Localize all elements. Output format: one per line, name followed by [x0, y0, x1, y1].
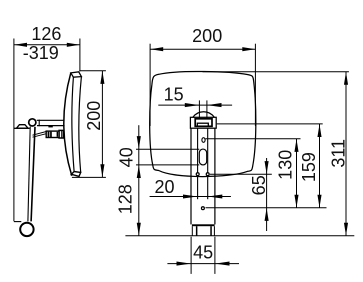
dimension 200 top: line: [150, 48, 255, 50]
knob body: [46, 131, 59, 137]
wall plate cap line: [14, 127, 30, 129]
mirror front outline (squircle): [150, 71, 256, 176]
upper small hole: [202, 138, 205, 143]
clamp inner small rect: [197, 123, 208, 126]
mirror strip bottom cap: [71, 172, 80, 177]
rod line left: [197, 128, 199, 199]
arrow up 311: [344, 72, 348, 85]
arrow down 200L: [100, 164, 104, 177]
dimension 200 left view: line: [101, 71, 103, 178]
base right side line: [213, 226, 215, 236]
arrow 20 left: [183, 194, 197, 198]
svg-text:40: 40: [117, 147, 137, 167]
dimension 159 line: [319, 124, 321, 208]
159 top extension: [217, 123, 323, 125]
lower hole: [201, 207, 204, 210]
dimension 20 line: [150, 196, 231, 198]
arm joint tick: [38, 120, 40, 127]
svg-text:65: 65: [249, 175, 269, 195]
svg-text:159: 159: [299, 152, 319, 182]
upper arm bottom line: [37, 125, 65, 127]
arrow right 200T: [242, 47, 255, 51]
svg-text:126: 126: [31, 24, 61, 44]
wall extension line (126 left): [13, 39, 15, 222]
arrow up 159: [317, 124, 321, 137]
arrow down 130: [294, 195, 298, 208]
arrow down onto 149.2: [137, 136, 141, 149]
bottom wall line: [14, 221, 21, 223]
dimension 130 line: [296, 139, 298, 208]
screw circle left: [196, 173, 199, 176]
rod line right: [207, 128, 209, 199]
dimension 200 left view: bottom extension: [72, 176, 106, 178]
arrow right of 126: [67, 43, 80, 47]
mirror strip top cap: [71, 72, 82, 77]
mirror strip front inner edge: [72, 77, 74, 171]
rail outer line right: [214, 128, 216, 224]
base left side line: [191, 226, 193, 236]
65 top extension from screws: [210, 173, 272, 175]
svg-text:20: 20: [154, 177, 174, 197]
knob band 2: [50, 132, 52, 137]
arrow 65 bottom (outside pointing up): [265, 208, 269, 221]
swing arm right line: [31, 127, 35, 222]
40 top extension line: [136, 148, 199, 150]
dimension 65 line: [266, 158, 268, 231]
arrow 45 right: [215, 262, 229, 266]
svg-text:200: 200: [84, 101, 104, 131]
dimension 45 line: [167, 263, 239, 265]
arrow 45 left: [177, 262, 191, 266]
rail outer line left: [190, 128, 192, 224]
svg-text:128: 128: [116, 184, 136, 214]
bottom roller circle: [20, 223, 33, 236]
dimension 200 top: left extension: [149, 44, 151, 126]
knob band 1: [48, 132, 50, 137]
dimension 126/-319 line: [14, 44, 80, 46]
svg-text:200: 200: [192, 26, 222, 46]
15 extension tick right: [206, 100, 208, 118]
45 extension right: [214, 237, 216, 274]
dimension 200 left view: top extension: [79, 70, 106, 72]
mirror strip front outer edge: [64, 73, 72, 174]
knob band 3: [57, 132, 58, 137]
arrow down 159: [317, 195, 321, 208]
svg-text:15: 15: [164, 84, 184, 104]
arrow left of 126: [14, 43, 27, 47]
svg-text:45: 45: [193, 243, 213, 263]
311 top extension: [203, 71, 349, 73]
arrow down 128 bottom: [137, 223, 141, 236]
arrow up 200L: [100, 71, 104, 84]
small dark tab under arm: [48, 126, 52, 128]
arrow 15 left (outside pointing right): [185, 103, 199, 107]
swing arm left line: [28, 127, 30, 222]
dimension 15 line: [158, 104, 232, 106]
svg-text:130: 130: [276, 150, 296, 180]
40 bottom extension line: [136, 164, 199, 166]
knob end cap inner line: [61, 130, 63, 138]
bottom long extension line: [125, 235, 354, 237]
upper arm top line: [37, 119, 65, 121]
dimension 200 top: right extension: [254, 44, 256, 126]
slot (elongated hole): [199, 149, 206, 165]
screw circle right: [206, 173, 209, 176]
base thick bar: [192, 224, 215, 226]
lever diagonal upper: [33, 132, 47, 136]
leader line from upper hole (130 top extension): [206, 138, 301, 140]
ball joint: [29, 119, 36, 126]
base right leg: [210, 226, 212, 235]
clamp inner window: [195, 119, 212, 127]
bottom cap corner dot: [71, 174, 73, 176]
dimension 311 line: [345, 72, 347, 236]
base left leg: [196, 226, 198, 235]
svg-text:-319: -319: [23, 43, 59, 63]
clamp box: [190, 117, 216, 128]
arrow 65 top (outside pointing down): [265, 161, 269, 174]
arrow 15 right (outside pointing left): [207, 103, 221, 107]
clamp dome arc: [193, 112, 215, 118]
arrow left 200T: [150, 47, 163, 51]
mirror strip back edge: [79, 77, 82, 173]
arrow down 311: [344, 223, 348, 236]
arrow up 130: [294, 139, 298, 152]
lever diagonal lower: [33, 134, 47, 138]
arrow 20 right: [208, 194, 222, 198]
screw cover trapezoid on wall plate: [17, 125, 28, 128]
arrow up onto 164.9 (shared 40/128): [137, 165, 141, 178]
svg-text:311: 311: [329, 139, 349, 168]
45 extension left: [190, 237, 192, 274]
40/128 dimension vertical line: [138, 125, 140, 236]
knob end cap: [59, 130, 63, 138]
15 extension tick left: [198, 100, 200, 118]
lower hole leader / bottom extension for 65,130,159: [206, 207, 327, 209]
extension line right of 126: [79, 39, 81, 72]
